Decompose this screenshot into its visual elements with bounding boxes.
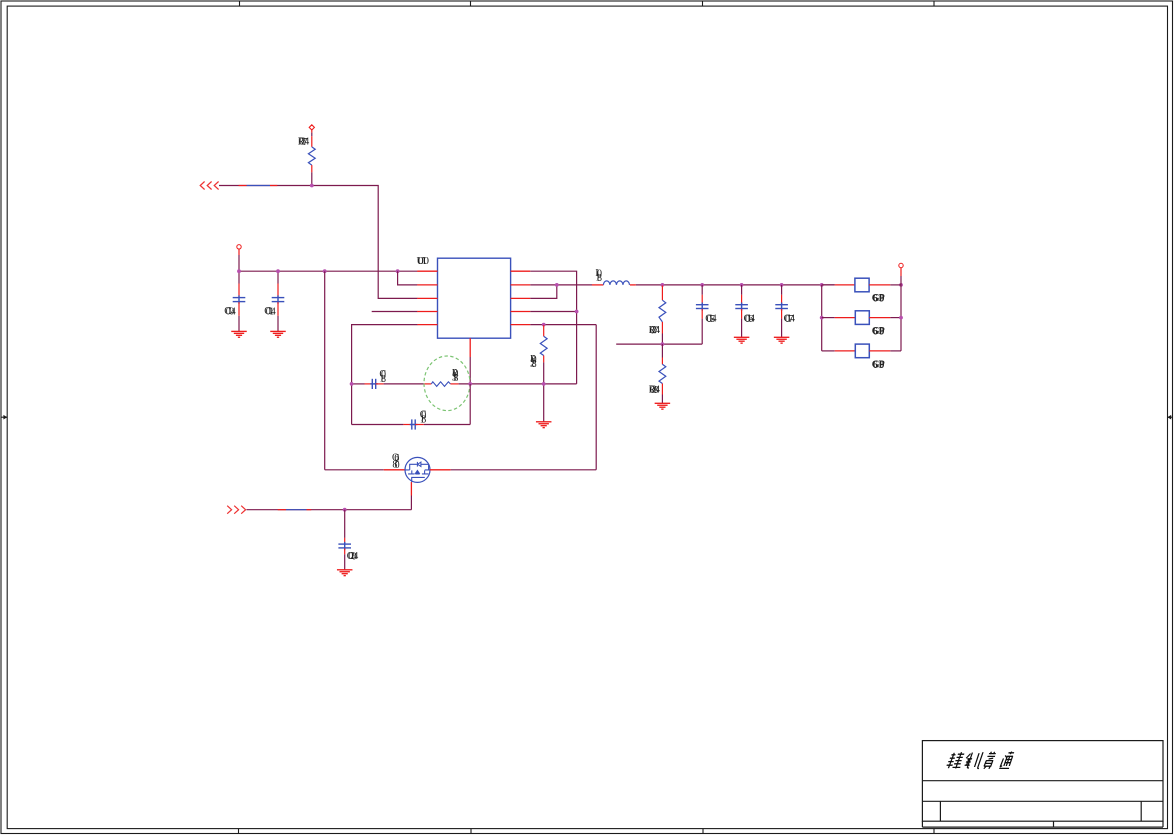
green highlight ellipse xyxy=(424,356,470,411)
ground mid xyxy=(536,422,552,428)
junction fb center xyxy=(468,382,472,386)
resistor R divider bottom xyxy=(659,344,666,403)
transistor Q1 xyxy=(405,457,430,482)
label C fb2 xyxy=(420,410,427,426)
label C out3 xyxy=(784,313,795,325)
label C out1 xyxy=(705,313,716,325)
capacitor C fb1 xyxy=(365,383,373,385)
ground C out3 xyxy=(774,337,790,343)
zone arrow right xyxy=(1167,415,1172,420)
wire pin4 stub xyxy=(372,311,418,313)
svg-text:8: 8 xyxy=(532,359,537,370)
zone tick top 1 xyxy=(239,1,241,6)
svg-text:4: 4 xyxy=(750,314,755,325)
svg-text:4: 4 xyxy=(790,314,795,325)
resistor R (pin5 pull-down) xyxy=(540,325,547,384)
svg-text:8: 8 xyxy=(597,273,602,284)
junction fb left xyxy=(350,382,354,386)
off-page connector chevrons left xyxy=(200,182,218,190)
resistor R divider top xyxy=(659,285,666,344)
junction pin5/R xyxy=(542,323,546,327)
ground C gate xyxy=(337,570,353,576)
junction bottom rail xyxy=(343,508,347,512)
label Q1 xyxy=(392,453,400,471)
junction left vertical row2 xyxy=(820,316,824,320)
junction dots input rail xyxy=(237,269,399,273)
off-page connector chevrons bottom xyxy=(227,506,245,514)
feedback bottom wire xyxy=(352,384,471,430)
junction sw node xyxy=(555,283,559,287)
wire R down to ground xyxy=(543,384,545,422)
wire pin4 right xyxy=(530,311,576,313)
capacitor C1 xyxy=(233,271,246,331)
label U1 xyxy=(417,255,430,267)
transistor Q1 right pin xyxy=(430,469,451,471)
svg-text:8: 8 xyxy=(453,373,458,384)
ground C1 xyxy=(231,331,247,337)
wire resistor R1 to rail xyxy=(311,172,313,185)
net color segment red b2 xyxy=(307,509,312,511)
zone tick bottom 4 xyxy=(933,829,935,834)
junction right vertical row2 xyxy=(899,316,903,320)
wire pin5 left to loop xyxy=(352,325,418,425)
wire output rail xyxy=(636,284,835,286)
zone tick top 2 xyxy=(470,1,472,6)
svg-text:6: 6 xyxy=(873,326,878,337)
label R divider top xyxy=(649,325,660,337)
resistor R1 top pin xyxy=(311,136,313,147)
net color segment blue xyxy=(247,185,270,187)
resistor R1 body xyxy=(308,147,315,165)
svg-text:4: 4 xyxy=(231,306,236,317)
label C gate xyxy=(347,551,358,563)
net color segment red b1 xyxy=(278,509,286,511)
wire pin5 right xyxy=(530,324,596,326)
wire gate down to bottom rail xyxy=(410,496,412,510)
ferrite bead square 3 xyxy=(855,344,869,358)
label GP3 xyxy=(872,359,885,371)
junction divider tap xyxy=(661,342,665,346)
mosfet gate pin xyxy=(410,482,412,495)
label L1 xyxy=(595,268,602,284)
IC U1 body xyxy=(438,258,511,338)
capacitor C out1 xyxy=(696,285,709,319)
IC right pins xyxy=(511,271,531,324)
svg-text:4: 4 xyxy=(655,325,660,336)
wire mosfet right to pin5 vertical xyxy=(451,469,597,471)
ground C2 xyxy=(270,331,286,337)
junction R1/rail xyxy=(310,184,314,188)
port circle right xyxy=(899,263,903,267)
row1 wires xyxy=(822,284,835,286)
svg-text:9: 9 xyxy=(879,360,884,371)
zone tick bottom 3 xyxy=(702,829,704,834)
capacitor C out2 xyxy=(735,285,748,337)
wire right port stub xyxy=(900,268,902,276)
svg-text:4: 4 xyxy=(353,551,358,562)
svg-text:8: 8 xyxy=(421,415,426,426)
zone tick top 4 xyxy=(933,1,935,6)
wire pin3 right up to pin2 xyxy=(530,285,557,299)
wire input rail xyxy=(239,270,417,272)
resistor R1 bottom pin xyxy=(311,165,313,172)
wire port stub xyxy=(238,249,240,255)
label C1 xyxy=(224,306,235,318)
inductor L1 right pin xyxy=(630,284,636,286)
IC bottom pin xyxy=(469,338,471,357)
zone tick top 3 xyxy=(702,1,704,6)
zone tick bottom 1 xyxy=(238,829,240,834)
svg-text:9: 9 xyxy=(879,326,884,337)
svg-text:4: 4 xyxy=(712,314,717,325)
IC left pins xyxy=(417,271,437,324)
inductor L1 left pin xyxy=(592,284,603,286)
ferrite bead square 1 xyxy=(855,278,869,292)
wire tap up to cap xyxy=(701,319,703,345)
net color segment red 2 xyxy=(270,185,277,187)
wire pin1 right to feedback vertical xyxy=(530,271,576,384)
zone tick bottom 2 xyxy=(470,829,472,834)
port diamond top xyxy=(309,125,314,130)
label R fb xyxy=(452,368,459,384)
zone arrow left xyxy=(1,415,7,420)
label C2 xyxy=(264,306,275,318)
ground divider xyxy=(655,403,671,409)
label C out2 xyxy=(744,313,755,325)
wire VIN top rail xyxy=(219,186,417,299)
svg-text:4: 4 xyxy=(655,385,660,396)
svg-text:4: 4 xyxy=(271,306,276,317)
wire pin2 right to inductor xyxy=(530,284,592,286)
wire from port to resistor R1 xyxy=(311,130,313,133)
label GP2 xyxy=(872,326,885,338)
wire pin5 vertical down to mosfet row xyxy=(595,325,597,470)
label R divider bottom xyxy=(649,385,660,397)
feedback mid wire xyxy=(352,379,577,389)
capacitor C fb2 xyxy=(403,424,411,426)
junction dots output rail xyxy=(661,283,903,287)
ground C out2 xyxy=(734,337,750,343)
svg-text:6: 6 xyxy=(873,360,878,371)
resistor R fb (in green circle) xyxy=(424,383,432,385)
label R1 xyxy=(298,136,309,148)
label R pin5 xyxy=(530,354,537,370)
wire pin2 branch xyxy=(398,271,418,285)
label C fb1 xyxy=(379,369,386,385)
wire right block left vertical xyxy=(821,285,823,351)
net color segment red xyxy=(239,185,247,187)
wire right vertical xyxy=(900,276,902,351)
net color segment blue b xyxy=(286,509,307,511)
capacitor C out3 xyxy=(775,285,788,337)
svg-text:4: 4 xyxy=(304,137,309,148)
label GP1 xyxy=(872,293,885,305)
ferrite bead square 2 xyxy=(855,311,869,325)
title text 緯創資通 xyxy=(946,752,1015,769)
port circle left xyxy=(237,245,241,249)
svg-text:0: 0 xyxy=(424,255,430,267)
title block xyxy=(922,741,1163,828)
row3 wires xyxy=(822,350,835,352)
inductor L1 xyxy=(603,281,629,285)
capacitor C2 xyxy=(272,271,285,331)
transistor Q1 left pin xyxy=(384,469,405,471)
mosfet row wire left xyxy=(325,469,384,471)
svg-text:6: 6 xyxy=(873,293,878,304)
capacitor C gate xyxy=(338,510,351,570)
row2 wires xyxy=(822,317,835,319)
svg-text:9: 9 xyxy=(879,293,884,304)
svg-text:8: 8 xyxy=(381,374,386,385)
wire bottom gate rail xyxy=(247,509,412,511)
svg-text:0: 0 xyxy=(395,460,400,471)
wire IC bottom pin down xyxy=(469,357,471,384)
wire long vertical to mosfet xyxy=(324,271,326,470)
junction pin4/vertical xyxy=(575,310,579,314)
wire divider tap xyxy=(616,343,702,345)
junction fb right xyxy=(542,382,546,386)
